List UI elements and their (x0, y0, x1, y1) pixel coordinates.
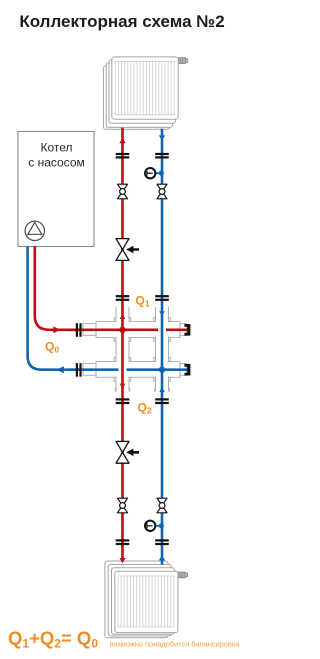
supply line across collector (red) (70, 328, 188, 331)
thermometer T2 (bottom) (145, 521, 164, 531)
svg-text:с насосом: с насосом (28, 156, 85, 170)
collector body: vertical pipes (116, 307, 169, 392)
svg-text:Коллекторная схема №2: Коллекторная схема №2 (19, 12, 224, 31)
flow arrows (blue) (56, 135, 165, 392)
riser pipe return (blue vertical) (161, 129, 164, 546)
shutoff valve V1 (red riser top) (118, 184, 128, 199)
balancing valve BV2 (bottom) (116, 441, 139, 463)
svg-text:возможно понадобится балансиро: возможно понадобится балансировка (110, 640, 241, 649)
end cap supply manifold (184, 324, 190, 336)
radiator RAD2 return stub (blue over radiator) (159, 545, 165, 565)
radiator RAD2 front panel (115, 571, 178, 632)
radiator RAD1 (top) echo layers (103, 60, 175, 129)
svg-text:Q0: Q0 (45, 340, 59, 355)
collector body: manifold H1 (supply) (83, 322, 187, 378)
balancing valve BV1 (top) (116, 239, 139, 261)
junction node return (159, 367, 165, 373)
boiler box (18, 132, 94, 247)
svg-text:Q1+Q2= Q0: Q1+Q2= Q0 (8, 628, 98, 651)
riser pipe supply (red vertical) (121, 128, 124, 546)
radiator RAD2 supply stub (red over radiator) (120, 545, 126, 563)
return line across collector (blue) (70, 368, 188, 371)
shutoff valve V3 (red riser bottom) (118, 498, 128, 513)
shutoff valve V2 (blue riser top) (157, 184, 167, 199)
radiator RAD1 air vent nozzle (178, 58, 188, 64)
crossing white gaps (119, 364, 127, 375)
radiator RAD2 air vent nozzle (178, 572, 188, 578)
svg-text:Q1: Q1 (136, 294, 150, 309)
union fittings (double bars) (77, 154, 169, 544)
thermometer T1 (top) (145, 168, 164, 178)
shutoff valve V4 (blue riser bottom) (157, 498, 167, 513)
supply pipe from boiler (red) (35, 246, 188, 330)
svg-text:Котел: Котел (40, 141, 72, 155)
junction node supply (119, 327, 125, 333)
radiator RAD1 front panel (112, 57, 178, 119)
radiator RAD2 (bottom) echo layers (105, 561, 175, 638)
return pipe to boiler (blue) (28, 246, 188, 370)
svg-text:Q2: Q2 (138, 401, 152, 416)
flow arrows (red) (53, 138, 125, 389)
collector body: riser end flanges (115, 388, 169, 391)
end cap return manifold (184, 364, 190, 376)
collector crossing clearouts (97, 322, 180, 376)
collector body: riser flanges (114, 318, 170, 382)
pump P1 (25, 221, 44, 240)
